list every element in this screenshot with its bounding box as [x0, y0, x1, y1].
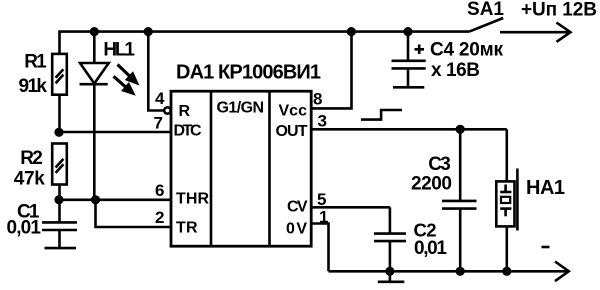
wire 0V (pin 1) [311, 224, 328, 272]
op-amp/timer IC DA1 KR1006VI1 box [171, 62, 321, 247]
node OUT / C3 [456, 125, 465, 134]
svg-text:91k: 91k [19, 76, 48, 97]
svg-text:R2: R2 [20, 148, 43, 169]
svg-text:C3: C3 [428, 154, 451, 175]
resistor R1 [19, 52, 67, 98]
wire bottom rail [329, 270, 568, 273]
svg-text:3: 3 [318, 111, 327, 130]
svg-text:DA1 КР1006ВИ1: DA1 КР1006ВИ1 [176, 62, 321, 84]
svg-text:2: 2 [155, 208, 164, 227]
svg-text:7: 7 [154, 114, 163, 133]
svg-text:HA1: HA1 [526, 177, 565, 199]
svg-text:4: 4 [155, 89, 165, 108]
wire R1 bottom lead [58, 95, 61, 134]
svg-text:R1: R1 [24, 52, 47, 73]
svg-text:DTC: DTC [174, 122, 202, 139]
svg-text:Vcc: Vcc [279, 103, 308, 120]
node A [54, 128, 63, 137]
wire TR (pin 2) [96, 200, 172, 227]
node top pin8 branch [347, 27, 356, 36]
svg-text:HL1: HL1 [103, 39, 135, 60]
wire DTC (pin 7) [59, 131, 171, 134]
node bottom C3 [456, 267, 465, 276]
node top HL1 [90, 27, 99, 36]
capacitor C2 [374, 207, 447, 271]
LED HL1 [80, 32, 140, 96]
node bottom HA1 [502, 267, 511, 276]
switch SA1 [467, 0, 504, 32]
pulse waveform symbol [361, 110, 402, 120]
node B left [54, 195, 63, 204]
svg-text:C2: C2 [414, 219, 437, 240]
wire +U supply arrow [500, 0, 597, 42]
capacitor C3 [411, 129, 477, 271]
svg-text:0,01: 0,01 [414, 238, 447, 259]
svg-text:47k: 47k [14, 169, 45, 190]
svg-text:OUT: OUT [276, 123, 308, 140]
svg-text:CV: CV [287, 199, 308, 216]
minus label [542, 246, 550, 249]
svg-text:0V: 0V [286, 220, 307, 237]
svg-text:6: 6 [155, 181, 164, 200]
svg-text:х 16В: х 16В [431, 60, 480, 81]
node B right [91, 195, 100, 204]
wire CV (pin 5) [311, 206, 390, 209]
wire pin 4 branch [148, 32, 164, 111]
svg-text:C4 20мк: C4 20мк [430, 39, 503, 60]
svg-text:G1/GN: G1/GN [217, 99, 265, 116]
node top pin4 branch [144, 27, 153, 36]
sounder HA1 [496, 129, 565, 271]
svg-text:SA1: SA1 [467, 0, 504, 20]
svg-text:THR: THR [176, 191, 209, 208]
svg-text:R: R [179, 103, 191, 120]
svg-text:0,01: 0,01 [7, 218, 42, 239]
svg-text:8: 8 [313, 90, 322, 109]
wire HL1 cathode to node B [93, 84, 96, 200]
wire OUT (pin 3) [311, 128, 507, 131]
ground stub below C2 [378, 271, 405, 282]
wire R2 bottom lead [58, 185, 61, 202]
wire top rail [60, 32, 470, 54]
capacitor C1 [7, 200, 78, 248]
wire pin 8 to rail [311, 32, 351, 109]
node top C4 branch [403, 27, 412, 36]
node bottom C2 [385, 267, 394, 276]
wire THR (pin 6) [59, 199, 171, 202]
svg-text:+Uп 12В: +Uп 12В [521, 0, 597, 21]
bottom rail arrow [555, 262, 569, 282]
pin 4 inversion bubble [164, 107, 170, 113]
svg-text:TR: TR [176, 219, 198, 236]
resistor R2 [14, 144, 67, 190]
svg-text:2200: 2200 [411, 174, 452, 195]
capacitor C4 [392, 32, 504, 88]
